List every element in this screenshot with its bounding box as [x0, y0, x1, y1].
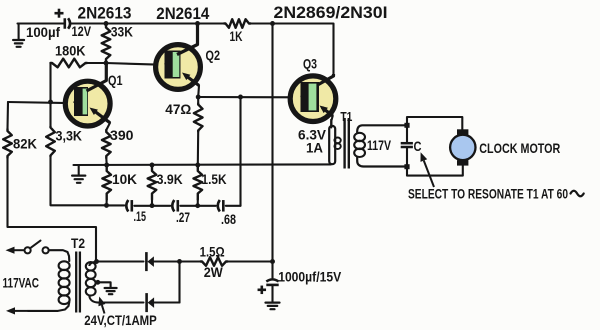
- switch terminal B: [43, 247, 49, 253]
- label .68: [221, 211, 236, 227]
- wire chain seg3: [180, 205, 216, 207]
- svg-text:CLOCK MOTOR: CLOCK MOTOR: [479, 140, 560, 156]
- svg-text:C: C: [414, 138, 422, 154]
- svg-text:1.5Ω: 1.5Ω: [200, 244, 225, 260]
- diode D1 (top): [146, 252, 154, 271]
- ground G1 (top left): [13, 24, 24, 47]
- svg-text:117VAC: 117VAC: [3, 275, 40, 291]
- wire rail cap to 33K node: [70, 22, 106, 24]
- svg-text:2N2869/2N30I: 2N2869/2N30I: [274, 4, 388, 22]
- junction rail/Q2 collector: [195, 21, 200, 26]
- wire output to 1.5ohm: [180, 260, 201, 262]
- resistor 1K (in rail): [224, 19, 251, 28]
- wire 1.5ohm to filter node: [228, 260, 273, 262]
- capacitor 0.27uF: [172, 200, 178, 212]
- transformer T2 primary winding: [59, 261, 70, 304]
- label 10K: [112, 171, 137, 187]
- wire 180K right lead: [87, 62, 106, 64]
- wire mid rail ground to T1 primary: [74, 163, 332, 166]
- wire Q1 emitter to 390: [106, 123, 110, 130]
- label 1000µf/15V: [278, 269, 342, 285]
- transformer T1 secondary winding: [354, 125, 407, 166]
- ground G2 (mid rail): [72, 165, 85, 183]
- junction D1-D2 output: [177, 259, 182, 264]
- wire output top rail: [407, 117, 462, 130]
- wire Q1 base rail: [8, 102, 76, 103]
- wire 82K top lead: [6, 102, 9, 129]
- resistor 10K: [102, 165, 111, 200]
- svg-text:12V: 12V: [72, 24, 92, 39]
- line input arrow (top): [6, 247, 25, 254]
- junction chain/3.9K: [150, 203, 155, 208]
- junction T2 secondary top / feedback: [94, 259, 99, 264]
- svg-text:2N2614: 2N2614: [156, 5, 210, 23]
- label 3,3K: [56, 128, 83, 144]
- wire 3.3K top lead: [49, 102, 51, 127]
- svg-text:1A: 1A: [306, 141, 323, 156]
- line input arrow (bottom): [6, 307, 28, 314]
- svg-text:.68: .68: [221, 211, 236, 227]
- label 2W: [204, 264, 224, 280]
- wire 390 bottom lead: [105, 158, 107, 165]
- junction rail/33K: [104, 21, 109, 26]
- svg-text:Q2: Q2: [206, 47, 221, 63]
- wire cap C top lead: [406, 125, 408, 142]
- label .27: [176, 209, 190, 225]
- transistor Q2 (2N2614): [156, 25, 201, 90]
- svg-text:.15: .15: [134, 208, 147, 224]
- resistor 47ohm: [194, 104, 203, 132]
- value label 100µf: [26, 24, 60, 40]
- wire D2 to joiner: [154, 301, 180, 303]
- transistor Q1 (2N2613): [65, 63, 110, 126]
- svg-text:.27: .27: [176, 209, 190, 225]
- wire Q2 emitter to Q3 base: [198, 96, 301, 98]
- resistor 3.9K: [148, 165, 157, 200]
- wire switch to T2 primary: [49, 250, 70, 261]
- svg-text:390: 390: [110, 127, 134, 143]
- capacitor 1000uF plates: [266, 279, 278, 285]
- wire cap-chain feed vertical: [239, 97, 241, 206]
- wire 180K left lead down to base node: [49, 63, 51, 102]
- wire center tap to ground: [98, 282, 111, 287]
- wire 10K bottom lead: [105, 200, 107, 206]
- wire Q2 emitter node to 47ohm: [197, 97, 199, 104]
- wire rail junction to Q3 collector corner: [273, 24, 334, 76]
- wire D1 to output node: [154, 260, 180, 262]
- transistor Q3 (2N2869/2N301): [290, 74, 336, 121]
- svg-text:2N2613: 2N2613: [78, 5, 132, 23]
- svg-text:3.9K: 3.9K: [157, 171, 183, 187]
- svg-text:10K: 10K: [112, 171, 137, 187]
- ground G4 (filter): [266, 303, 280, 310]
- wire 3.9K bottom lead: [151, 200, 153, 206]
- node A junction: [104, 61, 109, 66]
- wire Q2 emitter to node: [197, 86, 200, 98]
- svg-text:Q1: Q1: [108, 72, 123, 88]
- wire secondary bottom to diode D2: [99, 301, 144, 303]
- plus sign of 100uF: [55, 9, 64, 18]
- svg-text:117V: 117V: [367, 138, 391, 153]
- junction mid rail/390-10K: [104, 163, 109, 168]
- label 3.9K: [157, 171, 183, 187]
- switch lever: [31, 241, 41, 248]
- transformer T2 secondary winding: [86, 262, 99, 303]
- wire 47ohm to mid rail: [197, 132, 199, 166]
- capacitor C plates: [401, 143, 413, 147]
- junction filter node: [270, 259, 275, 264]
- capacitor 0.68uF: [218, 200, 224, 212]
- type label 2N2614: [156, 5, 210, 23]
- wire rail 33K node to Q2 collector node: [106, 22, 198, 24]
- capacitor C branch dots: [404, 123, 409, 169]
- wire rail Q2 node to 1K: [198, 22, 225, 24]
- label Q3: [303, 56, 317, 72]
- type label 2N2869/2N301: [274, 4, 388, 22]
- transformer T1 core: [345, 118, 349, 169]
- label 47Ω: [165, 101, 191, 117]
- annotation arrow to CT winding: [98, 297, 105, 314]
- label T2: [71, 235, 85, 251]
- wire cap C bottom lead: [406, 148, 408, 165]
- capacitor 100uF (electrolytic, series in rail): [65, 18, 70, 29]
- svg-text:2W: 2W: [204, 264, 224, 280]
- svg-text:100µf: 100µf: [26, 24, 60, 40]
- label 117V (T1 secondary): [367, 138, 391, 153]
- junction mid rail/3.9K: [150, 163, 155, 168]
- wire 3.3K bottom lead: [51, 157, 107, 206]
- label 6.3V: [298, 128, 326, 143]
- svg-text:Q3: Q3: [303, 56, 317, 72]
- wire chain seg1: [107, 204, 125, 206]
- type label 2N2613: [78, 5, 132, 23]
- wire 82K bottom to T2 secondary (feedback): [8, 158, 97, 262]
- junction emitter-wire/cap-chain: [238, 95, 243, 100]
- resistor 82K: [3, 129, 12, 158]
- label 117VAC: [3, 275, 40, 291]
- svg-text:SELECT TO RESONATE T1 AT 60: SELECT TO RESONATE T1 AT 60: [408, 187, 568, 203]
- label 1.5Ω: [200, 244, 225, 260]
- wire rectifier output joiner: [178, 262, 180, 303]
- label 390: [110, 127, 134, 143]
- svg-text:1K: 1K: [230, 28, 243, 44]
- label 24V,CT/1AMP: [84, 312, 157, 328]
- svg-text:180K: 180K: [55, 43, 86, 59]
- junction T2 center tap: [95, 280, 100, 285]
- label 1A: [306, 141, 323, 156]
- label 82K: [13, 136, 37, 152]
- resistor 180K: [51, 59, 88, 68]
- switch terminal A: [25, 247, 31, 253]
- resistor 1.5K: [194, 165, 203, 200]
- wire chain seg4 to feed: [226, 205, 241, 207]
- junction chain/1.5K: [195, 203, 200, 208]
- svg-text:1.5K: 1.5K: [202, 171, 227, 187]
- label T1: [340, 109, 352, 124]
- junction rail/supply vertical: [270, 21, 275, 26]
- junction mid rail/47-1.5K: [195, 163, 200, 168]
- wire top supply rail: [18, 22, 64, 24]
- value label 12V: [72, 24, 92, 39]
- junction base/3.3K: [48, 100, 53, 105]
- label 33K: [111, 24, 133, 40]
- svg-text:33K: 33K: [111, 24, 133, 40]
- diode D2 (bottom): [147, 293, 155, 312]
- wire supply vertical (rail to filter node): [271, 24, 273, 262]
- annotation arrow to C: [421, 152, 435, 187]
- resistor 3.3K: [46, 127, 55, 157]
- wire chain seg2: [134, 205, 170, 207]
- label Q1: [108, 72, 123, 88]
- wire node A to Q2 base: [106, 63, 165, 65]
- label 1K: [230, 28, 243, 44]
- wire rail 1K to junction: [251, 22, 273, 24]
- label Q2: [206, 47, 221, 63]
- capacitor 0.15uF: [126, 200, 132, 212]
- wire 1.5K bottom lead: [197, 200, 199, 206]
- wire bottom input to T2 primary: [28, 302, 69, 311]
- label C: [414, 138, 422, 154]
- wire Q3 emitter to T1 primary: [331, 116, 332, 128]
- svg-text:T1: T1: [340, 109, 352, 124]
- label 180K: [55, 43, 86, 59]
- svg-text:24V,CT/1AMP: 24V,CT/1AMP: [84, 312, 157, 328]
- note SELECT TO RESONATE: [408, 187, 568, 203]
- resistor 1.5 ohm 2W: [201, 257, 228, 266]
- wire 1000uF to ground: [271, 286, 273, 303]
- plus sign of 1000uF: [258, 286, 267, 295]
- junction chain/10K: [104, 203, 109, 208]
- label .15: [134, 208, 147, 224]
- svg-text:1000µf/15V: 1000µf/15V: [278, 269, 342, 285]
- svg-text:T2: T2: [71, 235, 85, 251]
- wire secondary top to diode D1: [97, 260, 144, 262]
- svg-text:82K: 82K: [13, 136, 37, 152]
- transformer T1 primary winding: [329, 119, 341, 164]
- label CLOCK MOTOR: [479, 140, 560, 156]
- wire output bottom rail: [407, 165, 463, 176]
- label 1.5K: [202, 171, 227, 187]
- ground G3 (center tap): [105, 288, 117, 294]
- sine-wave symbol (60 Hz): [571, 191, 584, 197]
- junction Q2 emitter node: [196, 95, 201, 100]
- wire filter node to 1000uF: [271, 262, 273, 278]
- clock motor symbol: [450, 129, 475, 165]
- svg-text:3,3K: 3,3K: [56, 128, 83, 144]
- transformer T2 core: [76, 252, 80, 313]
- svg-text:47Ω: 47Ω: [165, 101, 191, 117]
- resistor 33K: [102, 26, 111, 62]
- resistor 390: [102, 130, 111, 158]
